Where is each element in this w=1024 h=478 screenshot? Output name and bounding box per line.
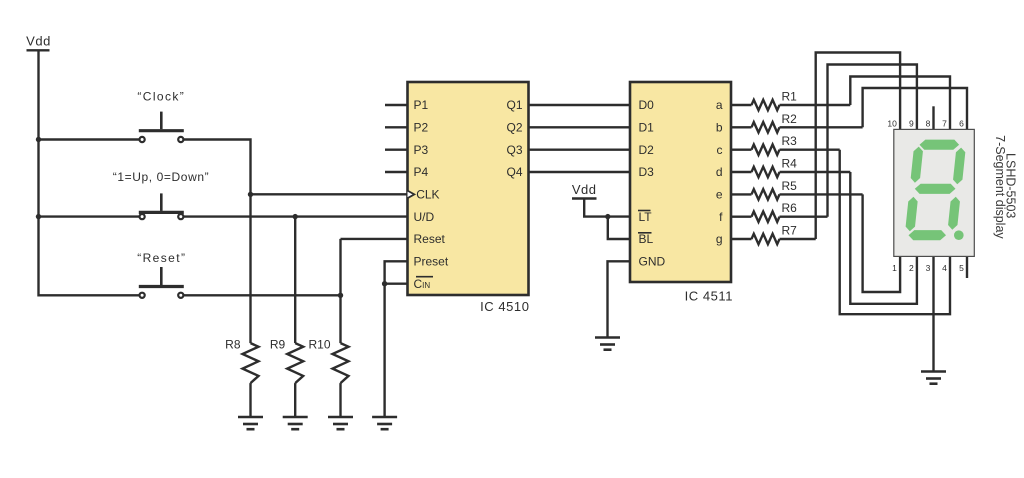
svg-text:Q3: Q3 [506, 143, 522, 157]
svg-text:2: 2 [909, 263, 914, 273]
svg-text:IC 4511: IC 4511 [685, 289, 733, 304]
svg-text:a: a [716, 98, 723, 112]
svg-text:9: 9 [909, 118, 914, 128]
svg-text:c: c [717, 143, 723, 157]
svg-text:g: g [716, 232, 723, 246]
svg-text:3: 3 [926, 263, 931, 273]
svg-text:Vdd: Vdd [572, 182, 597, 197]
svg-text:R1: R1 [782, 90, 798, 104]
svg-text:“Reset”: “Reset” [137, 251, 186, 265]
svg-text:D1: D1 [639, 121, 655, 135]
svg-text:D2: D2 [639, 143, 655, 157]
svg-text:1: 1 [892, 263, 897, 273]
svg-text:P2: P2 [414, 121, 429, 135]
svg-text:R9: R9 [270, 338, 286, 352]
svg-text:D3: D3 [639, 165, 655, 179]
svg-text:LT: LT [639, 210, 653, 224]
svg-text:6: 6 [959, 118, 964, 128]
svg-text:LSHD-5503: LSHD-5503 [1004, 153, 1018, 218]
svg-text:P1: P1 [414, 98, 429, 112]
svg-text:IC 4510: IC 4510 [480, 299, 529, 314]
svg-text:5: 5 [959, 263, 964, 273]
svg-text:R2: R2 [782, 112, 798, 126]
svg-text:Q4: Q4 [506, 165, 522, 179]
svg-text:GND: GND [639, 255, 666, 269]
svg-text:10: 10 [887, 118, 897, 128]
svg-text:Q1: Q1 [506, 98, 522, 112]
svg-text:R5: R5 [782, 179, 798, 193]
svg-text:P3: P3 [414, 143, 429, 157]
svg-text:7: 7 [942, 118, 947, 128]
svg-text:R8: R8 [225, 338, 241, 352]
svg-text:R6: R6 [782, 201, 798, 215]
svg-text:e: e [716, 188, 723, 202]
svg-text:Q2: Q2 [506, 121, 522, 135]
svg-text:R4: R4 [782, 157, 798, 171]
svg-text:P4: P4 [414, 165, 429, 179]
svg-text:R3: R3 [782, 134, 798, 148]
svg-text:8: 8 [926, 118, 931, 128]
svg-text:“1=Up, 0=Down”: “1=Up, 0=Down” [113, 170, 209, 184]
svg-text:b: b [716, 121, 723, 135]
svg-text:R10: R10 [308, 338, 330, 352]
svg-text:d: d [716, 165, 723, 179]
svg-text:U/D: U/D [414, 210, 435, 224]
svg-text:Reset: Reset [414, 232, 446, 246]
svg-text:R7: R7 [782, 224, 798, 238]
svg-text:BL: BL [639, 232, 654, 246]
svg-text:4: 4 [942, 263, 947, 273]
svg-text:Vdd: Vdd [26, 34, 51, 49]
svg-text:“Clock”: “Clock” [137, 89, 185, 103]
svg-text:D0: D0 [639, 98, 655, 112]
svg-text:Preset: Preset [414, 255, 449, 269]
svg-text:CLK: CLK [416, 188, 439, 202]
